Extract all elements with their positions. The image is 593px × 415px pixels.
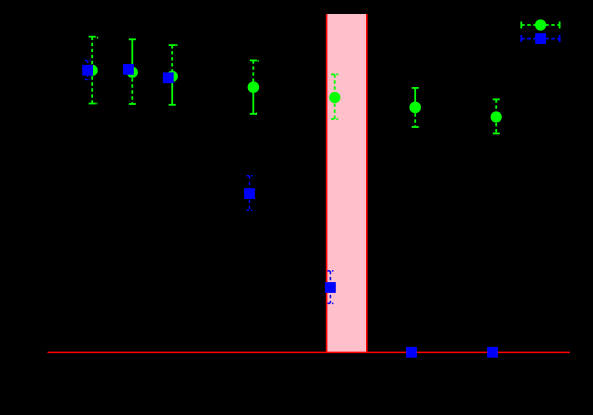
blue square point 1 <box>82 65 93 76</box>
green error bar 1 <box>89 37 99 104</box>
blue square point 3 <box>163 72 174 83</box>
green circle point 3 <box>167 71 178 82</box>
green error bar 4 <box>250 60 259 114</box>
red vertical band edge right <box>366 14 368 352</box>
blue square point 2 <box>123 64 134 75</box>
blue square point 7 <box>487 347 498 358</box>
green error bar 3 <box>169 45 178 105</box>
legend blue square marker <box>535 33 546 44</box>
green circle point 4 <box>248 81 260 93</box>
blue square point 4 <box>244 188 255 199</box>
blue error bar 1 <box>85 61 91 80</box>
blue square point 6 <box>406 347 417 358</box>
green circle point 7 <box>491 111 502 122</box>
legend green circle marker <box>535 19 546 30</box>
pink exclusion band <box>327 14 367 352</box>
green circle point 6 <box>409 102 421 114</box>
green circle point 5 <box>329 92 340 103</box>
green error bar 6 <box>412 88 419 127</box>
blue error bar 5 <box>327 271 333 304</box>
legend blue entry error bar <box>521 35 559 42</box>
green circle point 2 <box>127 67 138 78</box>
green error bar 2 <box>129 39 136 104</box>
red vertical band edge left <box>326 14 328 352</box>
green circle point 1 <box>87 65 98 76</box>
red horizontal baseline <box>48 351 571 353</box>
blue error bar 4 <box>247 176 253 211</box>
green error bar 5 <box>331 74 338 119</box>
green error bar 7 <box>493 99 500 133</box>
blue square point 5 <box>325 282 336 293</box>
legend green entry error bar <box>521 22 559 29</box>
